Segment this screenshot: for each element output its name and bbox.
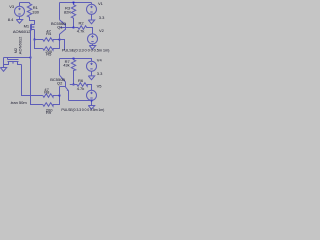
transistor M2 (nmos AON6012, rotated gate-up) bbox=[4, 58, 22, 65]
svg-text:3.3: 3.3 bbox=[99, 15, 105, 20]
node R7/R6 junction bbox=[73, 84, 75, 86]
ground below V4 bbox=[88, 76, 94, 80]
node gate line tap bbox=[30, 57, 32, 59]
wire junction stub left bbox=[70, 84, 74, 86]
svg-text:4.7k: 4.7k bbox=[77, 86, 85, 91]
wire mid horizontal to V4 bbox=[60, 59, 92, 62]
transistor Q2 (npn BC550B) bbox=[60, 75, 69, 100]
resistor R6 bbox=[74, 83, 92, 91]
svg-text:R4: R4 bbox=[46, 31, 52, 36]
voltage source V5 bbox=[87, 90, 97, 105]
resistor R9 (bottom of lower pair) bbox=[43, 96, 60, 107]
svg-text:PULSE(0 3.3 0 0 0 0.5m 1m): PULSE(0 3.3 0 0 0 0.5m 1m) bbox=[61, 108, 104, 112]
svg-text:43k: 43k bbox=[63, 63, 69, 68]
svg-text:V1: V1 bbox=[98, 1, 104, 6]
svg-text:R9: R9 bbox=[46, 110, 52, 115]
wire Q2 emitter to V5 bbox=[69, 100, 92, 102]
wire top rail left (V3 to R1) bbox=[20, 2, 30, 4]
transistor M1 (nmos AON6012) bbox=[31, 24, 35, 40]
svg-text:R5: R5 bbox=[46, 52, 52, 57]
svg-text:R2: R2 bbox=[79, 21, 85, 26]
resistor R8 (top of lower pair) bbox=[43, 94, 60, 98]
svg-text:Q1: Q1 bbox=[57, 24, 63, 29]
node V5 minus / Q2 emitter bbox=[91, 100, 93, 102]
wire mid node arm bbox=[60, 40, 65, 50]
ground at M2 left bbox=[0, 68, 6, 72]
resistor R1 bbox=[27, 3, 34, 25]
svg-text:V4: V4 bbox=[97, 58, 103, 63]
voltage source V1 bbox=[87, 3, 97, 21]
svg-text:330: 330 bbox=[32, 10, 39, 15]
svg-text:V2: V2 bbox=[99, 28, 105, 33]
svg-text:4.7k: 4.7k bbox=[77, 29, 85, 34]
svg-text:R8: R8 bbox=[44, 90, 50, 95]
wire Q2 collector drop bbox=[59, 59, 61, 76]
ground below V5 bbox=[88, 106, 94, 110]
voltage source V3 bbox=[15, 3, 25, 20]
svg-text:V5: V5 bbox=[97, 84, 103, 89]
svg-text:Q2: Q2 bbox=[57, 80, 63, 85]
wire M1 gate drop bbox=[31, 30, 43, 105]
voltage source V2 bbox=[88, 34, 98, 46]
svg-text:V3: V3 bbox=[9, 4, 15, 9]
svg-text:AON6012: AON6012 bbox=[13, 29, 31, 34]
node rail-R3 bbox=[73, 2, 75, 4]
svg-text:.tran 50m: .tran 50m bbox=[10, 100, 28, 105]
wire top rail right (Q1 to V1) bbox=[60, 2, 92, 4]
svg-text:3.3: 3.3 bbox=[97, 71, 103, 76]
wire M2 left to ground bbox=[4, 57, 31, 59]
wire M2 drain drop bbox=[22, 65, 43, 96]
ground below V1 bbox=[88, 20, 94, 24]
node upper pair right junction bbox=[59, 39, 61, 41]
transistor Q1 (pnp BC556B, emitter up to rail) bbox=[60, 3, 74, 40]
svg-text:82K: 82K bbox=[64, 10, 71, 15]
svg-text:R6: R6 bbox=[78, 78, 84, 83]
node M1 source junction bbox=[34, 39, 36, 41]
resistor R5 (bottom of upper pair) bbox=[43, 40, 60, 51]
voltage source V4 bbox=[87, 61, 97, 76]
node lower pair right junction bbox=[59, 95, 61, 97]
wire upper pair left drop bbox=[35, 40, 43, 49]
ground below V2 bbox=[89, 46, 95, 50]
node Q1 base / R3 / R2 bbox=[73, 27, 75, 29]
resistor R4 (top of upper pair) bbox=[35, 38, 60, 42]
wire Q2 base riser bbox=[59, 87, 61, 96]
ground below V3 bbox=[16, 20, 22, 24]
resistor R2 bbox=[74, 26, 93, 34]
svg-text:AON6012: AON6012 bbox=[17, 36, 22, 54]
svg-text:PULSE(0 3.3 0 0 0 0.5m 1m): PULSE(0 3.3 0 0 0 0.5m 1m) bbox=[62, 48, 110, 53]
resistor R3 bbox=[71, 3, 75, 28]
resistor R7 bbox=[71, 59, 75, 85]
node R7 top junction bbox=[73, 58, 75, 60]
svg-text:8.4: 8.4 bbox=[8, 17, 14, 22]
